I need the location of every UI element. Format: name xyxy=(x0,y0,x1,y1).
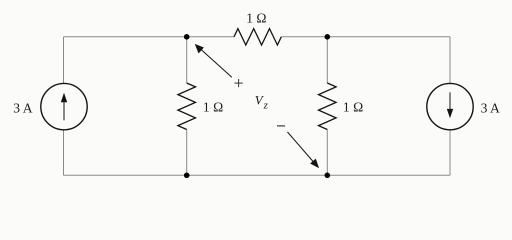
node D (junction dot) xyxy=(325,173,331,179)
wire resistor R2 bottom to node C xyxy=(186,130,188,176)
wire node B to resistor R3 top xyxy=(326,37,328,83)
node A (junction dot) xyxy=(184,34,190,40)
svg-text:1 Ω: 1 Ω xyxy=(343,100,363,115)
minus sign (Vz polarity) xyxy=(277,125,285,127)
current source I1 (left, 3 A, arrow up) xyxy=(41,83,87,129)
wire bottom rail xyxy=(64,174,451,176)
current source I1 arrow xyxy=(63,102,65,120)
svg-text:3 A: 3 A xyxy=(481,101,500,116)
wire top-left segment (node A to left rail) xyxy=(64,36,235,38)
node C (junction dot) xyxy=(184,173,190,179)
resistor R2 (left middle, vertical) xyxy=(178,83,196,130)
plus sign (Vz polarity) xyxy=(235,82,243,84)
annotation arrow to node D (points down-right) xyxy=(288,132,314,162)
current source I2 arrow xyxy=(449,92,451,109)
wire resistor R3 bottom to node D xyxy=(326,130,328,176)
svg-text:z: z xyxy=(263,100,269,112)
svg-text:1 Ω: 1 Ω xyxy=(246,10,266,25)
current source I2 (right, 3 A, arrow down) xyxy=(427,83,473,129)
wire left rail xyxy=(63,37,65,176)
annotation arrow to node A (points up-left) xyxy=(201,49,232,77)
svg-text:1 Ω: 1 Ω xyxy=(203,100,223,115)
wire right rail xyxy=(449,37,451,176)
node B (junction dot) xyxy=(325,34,331,40)
wire top-right segment (resistor R1 to right rail) xyxy=(281,36,450,38)
svg-text:3 A: 3 A xyxy=(13,101,32,116)
wire node A to resistor R2 top xyxy=(186,37,188,83)
resistor R1 (top, horizontal) xyxy=(234,29,281,45)
resistor R3 (right middle, vertical) xyxy=(319,83,337,130)
